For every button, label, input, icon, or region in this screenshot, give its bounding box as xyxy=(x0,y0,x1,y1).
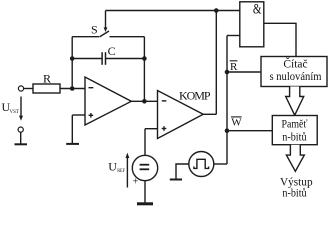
svg-text:R: R xyxy=(43,72,51,86)
svg-text:&: & xyxy=(253,2,262,18)
label U_VST xyxy=(2,100,20,115)
clock generator G1 xyxy=(189,152,214,177)
svg-text:s nulováním: s nulováním xyxy=(270,71,322,83)
ground op-amp1 xyxy=(66,143,79,145)
wire clock to ground xyxy=(176,164,189,179)
svg-text:VST: VST xyxy=(10,109,20,115)
U_VST arrow xyxy=(19,97,23,121)
wire to reference source xyxy=(144,129,146,156)
wire input to resistor xyxy=(24,88,33,90)
terminal ground circle xyxy=(18,127,23,132)
label memory text xyxy=(282,119,308,144)
wire feedback right vertical xyxy=(143,37,145,102)
label output text xyxy=(280,177,313,200)
wire op-amp1 noninverting xyxy=(72,114,85,116)
wire gate output xyxy=(264,23,296,56)
wire noninverting to ground xyxy=(71,115,73,144)
wire gate input2 xyxy=(227,35,240,37)
switch S control arrowhead xyxy=(104,27,108,32)
capacitor C xyxy=(102,52,105,65)
op-amp U1 integrator xyxy=(85,77,131,125)
label W-bar xyxy=(231,116,242,128)
voltage source U_REF xyxy=(132,155,157,180)
wire comparator output xyxy=(203,113,216,115)
ground clock xyxy=(170,179,182,181)
svg-text:W: W xyxy=(231,116,242,128)
node cap-right junction xyxy=(142,56,147,61)
wire clock riser xyxy=(226,36,228,165)
ground U_VST xyxy=(15,132,28,144)
counter box xyxy=(261,57,327,87)
op-amp U2 comparator xyxy=(158,91,204,139)
wire feedback left vertical xyxy=(71,37,73,89)
svg-text:U: U xyxy=(108,160,117,174)
svg-text:REF: REF xyxy=(117,168,125,174)
label R-bar xyxy=(230,61,238,73)
W overline xyxy=(231,116,242,118)
wire top control/gate bus xyxy=(106,10,240,12)
node inverting input junction xyxy=(70,86,75,91)
bus arrow memory output xyxy=(286,145,304,172)
node top bus junction xyxy=(214,8,219,13)
memory box xyxy=(272,116,317,145)
wire capacitor branch xyxy=(72,58,144,60)
resistor R xyxy=(33,84,60,93)
R overline xyxy=(230,60,238,62)
wire source to ground xyxy=(144,181,146,203)
wire integrator output xyxy=(131,100,158,102)
svg-text:KOMP: KOMP xyxy=(179,89,211,103)
AND gate U3 xyxy=(240,2,264,47)
ground U_REF xyxy=(137,202,153,205)
wire switch control drop xyxy=(105,11,107,29)
svg-text:S: S xyxy=(91,23,98,37)
svg-text:+: + xyxy=(133,176,139,187)
wire comparator output riser xyxy=(215,11,217,115)
U_REF polarity arrow xyxy=(126,153,130,188)
switch S xyxy=(72,31,144,37)
node W line junction xyxy=(225,128,230,133)
wire R to counter xyxy=(227,71,261,73)
label U_REF xyxy=(108,160,125,175)
svg-text:C: C xyxy=(108,44,116,58)
label counter text xyxy=(270,57,322,83)
node integrator output junction xyxy=(142,99,147,104)
terminal input circle xyxy=(18,86,23,91)
wire W to memory xyxy=(227,130,272,132)
svg-text:n-bitů: n-bitů xyxy=(282,130,307,143)
svg-text:R: R xyxy=(230,61,238,73)
wire comparator noninverting xyxy=(145,128,158,130)
svg-text:Paměť: Paměť xyxy=(282,119,308,131)
wire resistor to op-amp xyxy=(60,88,85,90)
svg-text:n-bitů: n-bitů xyxy=(282,187,306,200)
node cap-left junction xyxy=(70,56,75,61)
bus arrow counter to memory xyxy=(286,87,304,116)
svg-text:Čítač: Čítač xyxy=(283,57,307,71)
node R line junction xyxy=(225,70,230,75)
wire clock output xyxy=(214,163,227,165)
